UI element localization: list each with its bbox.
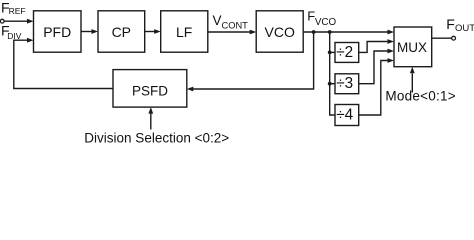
svg-text:VCO: VCO xyxy=(315,17,337,28)
svg-text:÷4: ÷4 xyxy=(336,107,353,124)
arrowhead into LF xyxy=(154,29,161,34)
arrowhead into MUX input2 xyxy=(388,39,395,44)
wire Division Selection into PSFD xyxy=(150,114,152,130)
svg-text:F: F xyxy=(446,16,455,32)
svg-text:Mode<0:1>: Mode<0:1> xyxy=(385,89,456,104)
svg-text:VCO: VCO xyxy=(265,24,295,40)
arrowhead into CP xyxy=(92,29,99,34)
terminal FREF circle xyxy=(0,19,4,23)
svg-text:MUX: MUX xyxy=(397,40,427,55)
terminal FOUT circle xyxy=(452,36,456,40)
svg-text:LF: LF xyxy=(176,24,192,40)
svg-text:PSFD: PSFD xyxy=(132,83,168,98)
wire Mode control into MUX xyxy=(411,74,413,93)
svg-text:÷3: ÷3 xyxy=(336,75,353,92)
arrowhead into PFD FREF xyxy=(27,19,34,24)
arrowhead into PFD FDIV xyxy=(27,38,34,43)
wire LF to VCO (VCONT) xyxy=(208,31,250,33)
arrowhead into MUX input4 xyxy=(388,58,395,63)
arrowhead into MUX input1 xyxy=(388,30,395,35)
junction dot FVCO 1 xyxy=(312,30,316,34)
svg-text:CP: CP xyxy=(112,24,131,40)
wire MUX output (FOUT) xyxy=(432,37,452,39)
wire PFD to CP xyxy=(81,31,92,33)
wire FDIV feedback path xyxy=(14,40,113,88)
wire FVCO down to PSFD input xyxy=(193,32,314,89)
svg-text:V: V xyxy=(213,13,222,28)
wire CP to LF xyxy=(145,31,155,33)
svg-text:DIV: DIV xyxy=(7,31,22,41)
arrowhead into PSFD right xyxy=(187,87,194,92)
block MUX xyxy=(394,27,432,67)
wire stub to divide-by-3 xyxy=(330,83,335,85)
wire divide-by-3 out to MUX input3 xyxy=(359,51,388,84)
wire VCO to MUX input1 (FVCO) xyxy=(303,31,388,33)
wire divide-by-2 out to MUX input2 xyxy=(359,42,388,53)
block divide-by-4 xyxy=(335,105,359,126)
junction dot FVCO 2 xyxy=(328,30,332,34)
wire stub to divide-by-2 xyxy=(330,51,335,53)
svg-text:REF: REF xyxy=(9,6,26,16)
block PSFD xyxy=(113,70,187,108)
block LF xyxy=(161,11,208,52)
svg-text:PFD: PFD xyxy=(43,24,71,40)
block CP xyxy=(98,11,145,52)
block divide-by-3 xyxy=(335,74,359,94)
svg-text:Division Selection <0:2>: Division Selection <0:2> xyxy=(84,130,229,145)
wire divide-by-4 out to MUX input4 xyxy=(359,61,388,116)
junction dot bus to div2 xyxy=(328,51,332,55)
block divide-by-2 xyxy=(335,43,359,63)
arrowhead Division Selection into PSFD bottom xyxy=(148,107,153,114)
block PFD xyxy=(34,11,82,52)
arrowhead into VCO xyxy=(250,30,257,35)
wire FVCO bus down to dividers xyxy=(330,32,335,115)
wire FREF input xyxy=(4,20,27,22)
svg-text:÷2: ÷2 xyxy=(336,44,353,61)
svg-text:CONT: CONT xyxy=(222,20,249,30)
junction dot bus to div3 xyxy=(328,82,332,86)
arrowhead into MUX input3 xyxy=(388,49,395,54)
arrowhead Mode into MUX bottom xyxy=(410,67,415,74)
block VCO xyxy=(256,11,303,52)
svg-text:OUT: OUT xyxy=(455,23,474,34)
